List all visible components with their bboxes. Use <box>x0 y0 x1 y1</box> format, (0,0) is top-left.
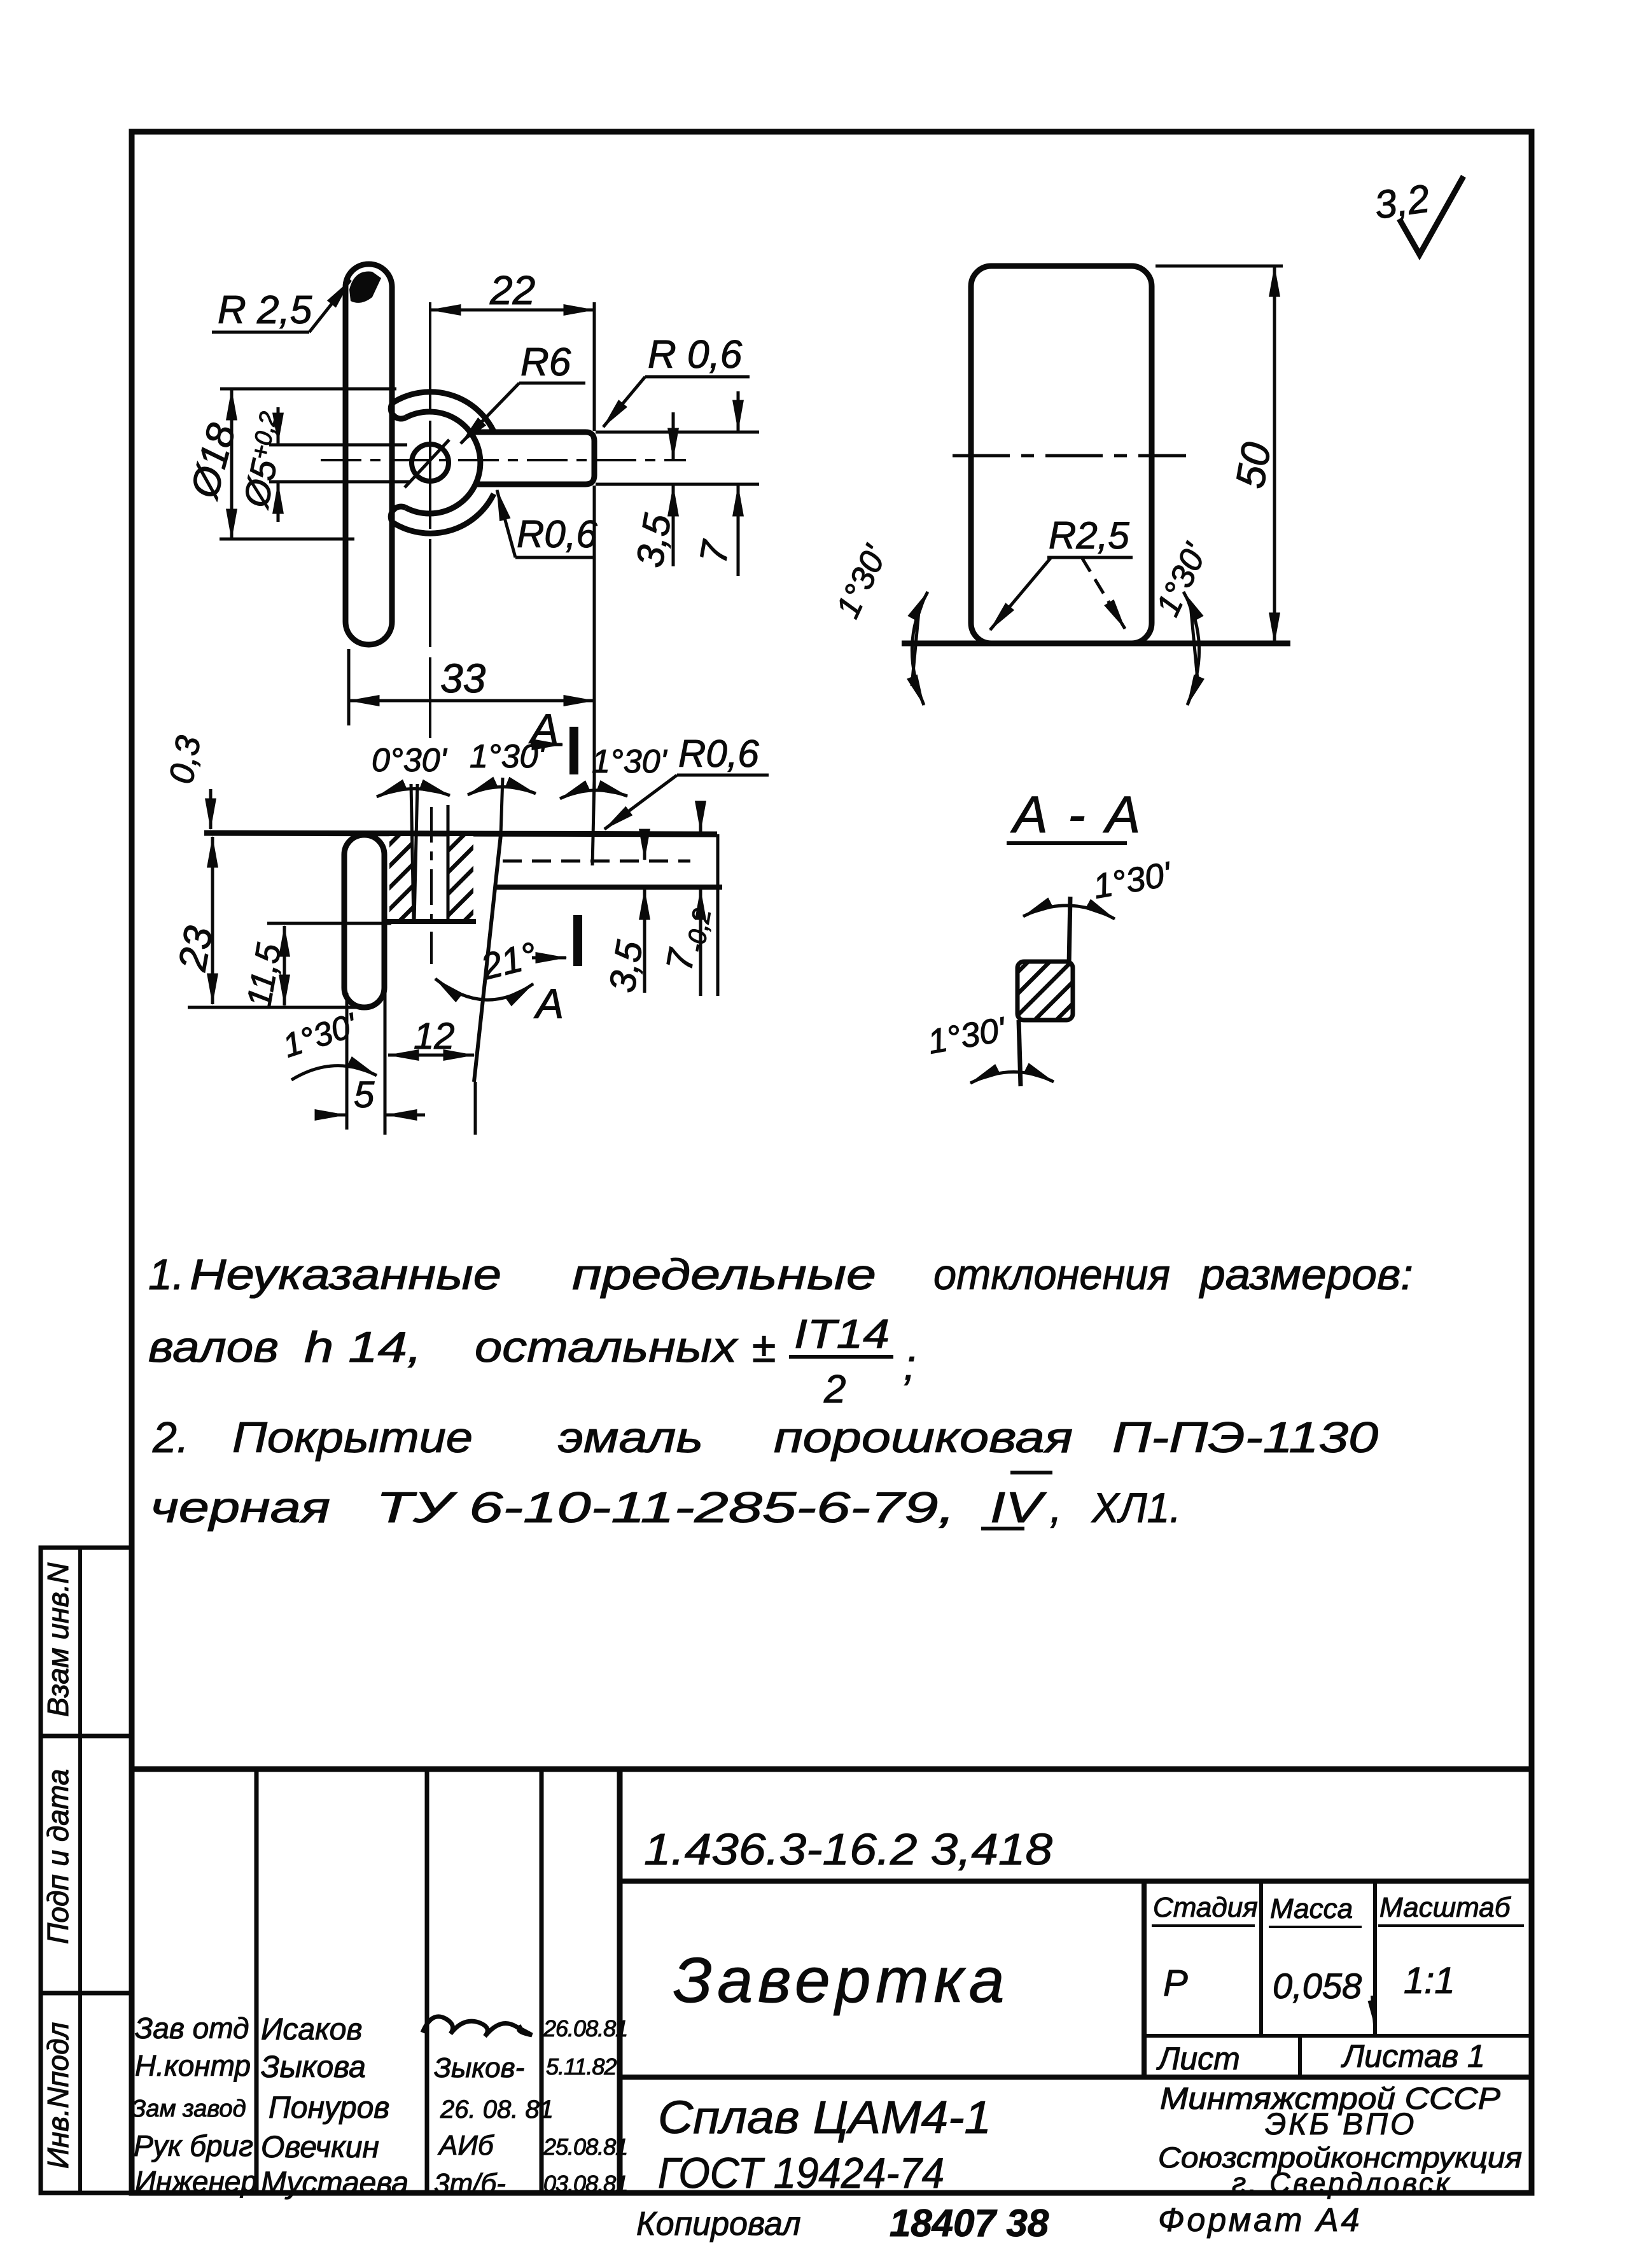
svg-text:Зам завод: Зам завод <box>131 2096 246 2122</box>
svg-text:Лист: Лист <box>1156 2041 1240 2076</box>
svg-text:Понуров: Понуров <box>269 2091 389 2125</box>
slot top cap <box>391 403 406 419</box>
sidebar cell Inv N podl <box>41 1993 132 2193</box>
svg-text:;: ; <box>904 1341 916 1389</box>
TITLEBLOCK <box>131 1769 1532 2244</box>
divider name/grid <box>1142 1881 1147 2077</box>
dimension 7 plan <box>737 391 740 431</box>
handle bar front view stadium <box>344 835 384 1007</box>
VIEW4 <box>925 786 1175 1086</box>
svg-text:Масса: Масса <box>1270 1893 1353 1924</box>
svg-text:АИб: АИб <box>437 2130 495 2161</box>
svg-text:2: 2 <box>823 1368 846 1411</box>
svg-text:21°: 21° <box>476 934 541 988</box>
horizontal centerline <box>321 459 686 461</box>
tongue edge extension lines <box>596 431 759 434</box>
dimension 23 <box>211 837 214 891</box>
dimension 3,5 front <box>643 835 646 860</box>
svg-text:7-0,2: 7-0,2 <box>659 903 716 975</box>
svg-text:Н.контр: Н.контр <box>135 2049 251 2082</box>
svg-text:22: 22 <box>489 267 535 313</box>
title block top line <box>132 1767 1532 1772</box>
svg-text:1°30': 1°30' <box>470 738 546 775</box>
boss section bottom line <box>384 919 476 924</box>
svg-text:R0,6: R0,6 <box>517 513 597 556</box>
svg-text:черная: черная <box>150 1483 330 1532</box>
extension line x934 <box>593 302 596 431</box>
svg-text:R 2,5: R 2,5 <box>218 288 312 332</box>
extension line oval left <box>347 649 351 725</box>
svg-text:1°30': 1°30' <box>1091 855 1175 906</box>
svg-text:Взам инв.N: Взам инв.N <box>41 1562 74 1717</box>
staff column lines <box>255 1769 259 2193</box>
boss outer circle bottom arc <box>393 494 494 533</box>
sidebar cell Podp i data <box>41 1736 132 1993</box>
hatched tongue section <box>1017 962 1073 1020</box>
base ground line <box>902 641 1290 647</box>
shading blob in handle top cap <box>349 272 381 303</box>
upper tongue edge line <box>1069 897 1070 965</box>
svg-text:0,3: 0,3 <box>162 733 208 787</box>
svg-text:1.Неуказанныепредельныеотклоне: 1.Неуказанныепредельныеотклоненияразмеро… <box>148 1250 1413 1299</box>
svg-text:0°30': 0°30' <box>372 742 448 779</box>
tongue outline plan <box>472 432 594 484</box>
svg-text:Подп и дата: Подп и дата <box>41 1769 74 1944</box>
VIEW1 <box>182 264 759 792</box>
svg-text:Ø18: Ø18 <box>182 419 244 503</box>
dimension 5 <box>317 1114 346 1117</box>
svg-text:3т/б-: 3т/б- <box>434 2168 506 2199</box>
svg-text:0,058: 0,058 <box>1273 1966 1362 2006</box>
rounded rectangle plate <box>971 266 1152 643</box>
dimension 7-0,2 front <box>699 803 702 832</box>
tongue tip edge <box>716 834 720 996</box>
slash through hole <box>405 440 449 487</box>
svg-text:ЭКБ ВПО: ЭКБ ВПО <box>1265 2108 1416 2141</box>
svg-text:Инв.Nподл: Инв.Nподл <box>41 2022 74 2169</box>
svg-text:1°30': 1°30' <box>592 743 668 780</box>
svg-text:1:1: 1:1 <box>1404 1960 1455 2001</box>
svg-text:R0,6: R0,6 <box>678 732 759 775</box>
svg-text:11,5: 11,5 <box>240 940 289 1011</box>
hatch band left <box>389 836 412 919</box>
svg-text:1°30': 1°30' <box>279 1006 363 1065</box>
drawing sheet frame <box>132 132 1532 2193</box>
svg-text:3,5: 3,5 <box>628 510 680 570</box>
VIEW3 <box>162 732 769 1135</box>
dimension 11,5 <box>283 926 286 1005</box>
svg-text:7: 7 <box>692 536 737 566</box>
svg-text:25.08.81: 25.08.81 <box>543 2134 627 2160</box>
svg-text:ТУ 6-10-11-285-6-79,: ТУ 6-10-11-285-6-79, <box>376 1483 955 1532</box>
svg-text:1°30': 1°30' <box>829 539 895 624</box>
svg-text:Зав отд: Зав отд <box>135 2012 249 2045</box>
boss vertical centerline <box>429 302 431 738</box>
svg-text:50: 50 <box>1227 438 1280 491</box>
NOTES <box>148 1250 1413 1532</box>
plate centerline <box>953 454 1186 458</box>
list row line <box>620 2075 1532 2080</box>
svg-text:,: , <box>1050 1483 1062 1532</box>
svg-text:Зыкова: Зыкова <box>261 2050 366 2084</box>
svg-text:Овечкин: Овечкин <box>261 2131 379 2164</box>
svg-text:R2,5: R2,5 <box>1049 514 1129 557</box>
svg-text:валовh 14,остальных±: валовh 14,остальных± <box>148 1323 776 1371</box>
bend taper line 1d30 third <box>592 780 594 865</box>
sidebar cell Vzam inv <box>41 1548 132 1736</box>
dimension 50 <box>1273 266 1276 643</box>
svg-text:Ø5+0,2: Ø5+0,2 <box>235 409 295 512</box>
VIEW2 <box>829 176 1463 705</box>
slant extension up 1d30 <box>501 778 503 835</box>
svg-text:ГОСТ 19424-74: ГОСТ 19424-74 <box>658 2149 944 2197</box>
handle side extension lines <box>346 993 349 1130</box>
svg-text:Инженер: Инженер <box>135 2165 257 2198</box>
svg-text:Формат А4: Формат А4 <box>1158 2202 1362 2239</box>
R6 slot inner arc <box>406 412 480 514</box>
plate top edge line <box>204 833 717 834</box>
svg-text:ХЛ1.: ХЛ1. <box>1091 1484 1181 1531</box>
svg-text:1.436.3-16.2 3,418: 1.436.3-16.2 3,418 <box>644 1824 1052 1874</box>
svg-text:Стадия: Стадия <box>1153 1892 1258 1923</box>
svg-text:Сплав ЦАМ4-1: Сплав ЦАМ4-1 <box>658 2092 991 2143</box>
svg-text:5: 5 <box>354 1074 375 1116</box>
lower tongue edge line <box>1019 1020 1021 1086</box>
svg-text:18407 38: 18407 38 <box>890 2202 1049 2244</box>
svg-text:R6: R6 <box>520 340 571 384</box>
svg-text:Завертка: Завертка <box>673 1945 1009 2016</box>
tongue bottom line <box>496 885 722 890</box>
svg-text:Масштаб: Масштаб <box>1379 1892 1512 1923</box>
svg-text:Рук бриг: Рук бриг <box>134 2129 253 2162</box>
hatch band right <box>449 836 473 919</box>
svg-text:1°30': 1°30' <box>1149 537 1215 622</box>
dimension D5+0,2 <box>277 407 280 444</box>
svg-text:1°30': 1°30' <box>925 1010 1009 1061</box>
tongue hidden top dashed <box>503 860 690 863</box>
svg-text:26. 08. 81: 26. 08. 81 <box>440 2096 554 2124</box>
svg-text:Р: Р <box>1163 1963 1188 2004</box>
stray arrow mark under masshtab <box>1372 1996 1374 2025</box>
svg-text:26.08.81: 26.08.81 <box>543 2015 627 2041</box>
hole edge taper lines 0d30 <box>411 784 414 921</box>
svg-text:Копировал: Копировал <box>636 2206 801 2243</box>
boss outer circle top arc <box>393 392 494 431</box>
svg-text:A - A: A - A <box>1010 786 1144 844</box>
svg-text:2.ПокрытиеэмальпорошковаяП-ПЭ-: 2.ПокрытиеэмальпорошковаяП-ПЭ-1130 <box>152 1413 1378 1462</box>
svg-text:A: A <box>533 980 564 1027</box>
handle bar (stadium) plan view <box>346 264 392 645</box>
svg-text:Исаков: Исаков <box>261 2013 362 2047</box>
slot bottom cap <box>391 507 406 522</box>
center hole circle <box>412 444 449 481</box>
svg-text:12: 12 <box>414 1016 455 1057</box>
dimension 12 <box>388 1054 474 1057</box>
dimension 33 <box>349 699 594 703</box>
svg-text:3,5: 3,5 <box>601 937 651 995</box>
svg-text:IT14: IT14 <box>794 1311 890 1357</box>
svg-text:R 0,6: R 0,6 <box>648 333 743 377</box>
hole centerline front <box>430 807 433 964</box>
neck slant line 21deg <box>474 835 501 1082</box>
SIDEBAR <box>41 1548 132 2193</box>
dimension 3,5 plan <box>672 412 675 459</box>
svg-text:03.08.81: 03.08.81 <box>543 2171 627 2197</box>
svg-text:5.11.82: 5.11.82 <box>546 2054 617 2080</box>
svg-text:23: 23 <box>171 923 221 975</box>
svg-text:г. Свердловск: г. Свердловск <box>1232 2167 1452 2199</box>
svg-text:Листав 1: Листав 1 <box>1341 2038 1485 2074</box>
svg-text:IV: IV <box>990 1483 1047 1532</box>
svg-text:33: 33 <box>440 655 486 701</box>
dimension D18 <box>230 389 234 540</box>
BORDER-FRAME <box>132 132 1532 2193</box>
stadia massa masshtab grid <box>1259 1881 1263 2036</box>
svg-text:Мустаева: Мустаева <box>261 2166 409 2200</box>
dimension 0,3 <box>209 789 213 829</box>
dimension 22 <box>430 309 594 312</box>
line under doc number <box>620 1879 1532 1884</box>
svg-text:Зыков-: Зыков- <box>434 2052 524 2083</box>
